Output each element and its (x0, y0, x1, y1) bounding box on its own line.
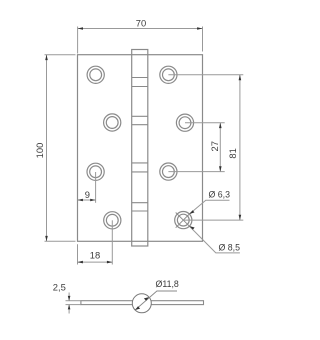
svg-text:100: 100 (34, 143, 45, 159)
screw hole row1 left (87, 66, 104, 83)
screw hole row4 left (104, 212, 121, 229)
screw hole row4 right with cross (175, 212, 192, 229)
leader and label D6,3 (189, 200, 229, 214)
svg-text:81: 81 (227, 148, 238, 158)
screw hole row1 right (160, 66, 177, 83)
svg-text:9: 9 (85, 189, 90, 200)
svg-text:27: 27 (209, 141, 220, 151)
side view leaf bar (81, 301, 204, 305)
svg-text:Ø 6,3: Ø 6,3 (209, 190, 231, 200)
screw hole row3 right (160, 163, 177, 180)
screw hole row3 left (87, 163, 104, 180)
side view knuckle circle (132, 294, 151, 313)
leader and label D8,5 (189, 226, 240, 253)
dimension 70 top (78, 27, 203, 54)
knuckle band 4 (132, 203, 148, 211)
dimension 9 (78, 172, 96, 203)
knuckle band 1 (132, 78, 148, 87)
screw hole row2 left (104, 114, 121, 131)
dimension 18 bottom (78, 220, 113, 264)
dimension 27 right (168, 123, 224, 172)
knuckle band 2 (132, 116, 148, 124)
hinge leaf outline (78, 55, 203, 242)
dimension 100 left (45, 55, 76, 242)
svg-text:18: 18 (90, 249, 100, 260)
dimension 2,5 side view (66, 293, 81, 314)
svg-text:Ø 8,5: Ø 8,5 (219, 243, 241, 253)
diameter arrow D11,8 (135, 291, 177, 310)
svg-text:2,5: 2,5 (53, 281, 66, 292)
screw hole row2 right (176, 114, 193, 131)
dimension 81 far right (168, 75, 243, 220)
knuckle (barrel) (132, 50, 148, 247)
knuckle band 3 (132, 163, 148, 172)
svg-text:Ø11,8: Ø11,8 (156, 279, 179, 289)
svg-text:70: 70 (136, 17, 146, 28)
